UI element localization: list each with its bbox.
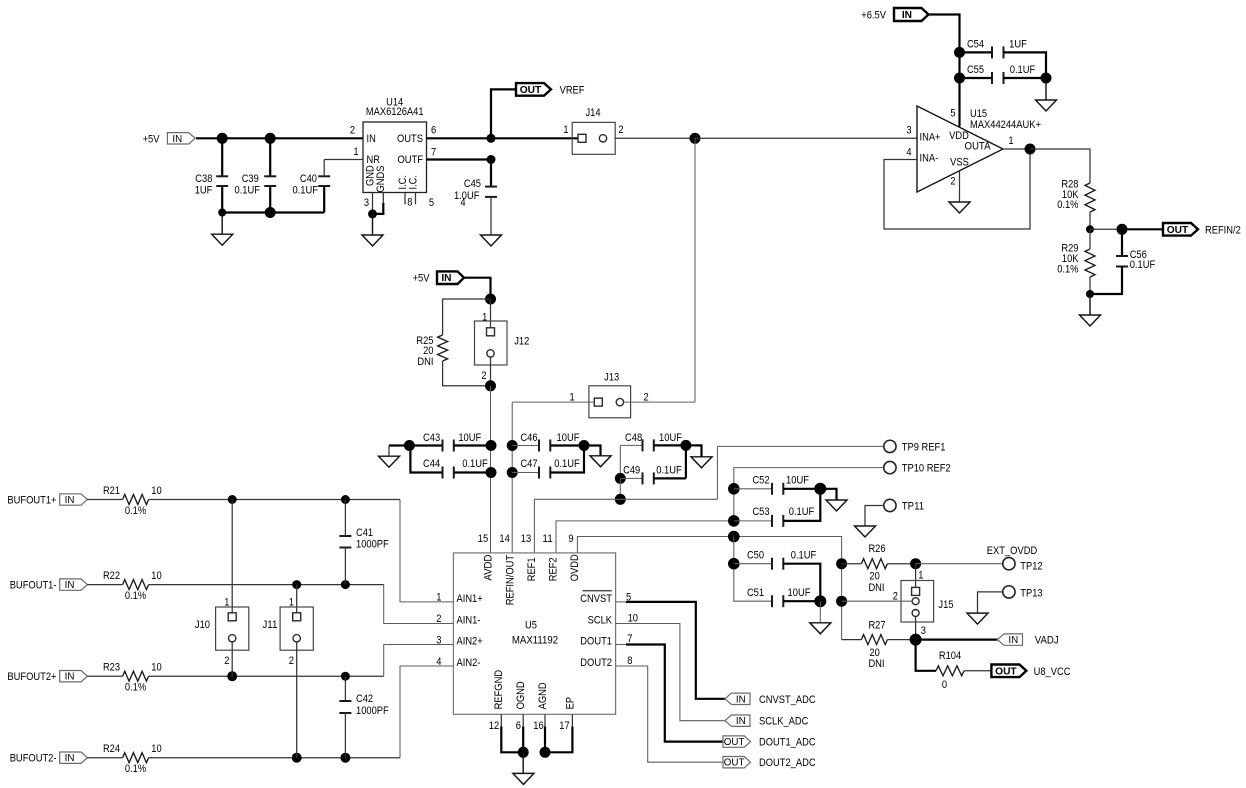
- svg-text:5: 5: [429, 197, 434, 209]
- port IN BUFOUT2+: [60, 671, 88, 682]
- svg-text:1: 1: [918, 570, 923, 582]
- wire OUTS pin 6 to VREF node: [427, 137, 579, 139]
- testpoint TP10: [884, 461, 896, 473]
- svg-text:DOUT2: DOUT2: [580, 657, 612, 669]
- svg-text:OUT: OUT: [724, 737, 745, 748]
- resistor R22 10 0.1%: [87, 584, 122, 586]
- node C53 left: [728, 515, 740, 527]
- svg-text:0.1%: 0.1%: [125, 590, 146, 602]
- svg-text:BUFOUT2+: BUFOUT2+: [7, 671, 56, 683]
- svg-text:IN: IN: [172, 134, 182, 145]
- svg-text:CNVST_ADC: CNVST_ADC: [759, 694, 816, 706]
- svg-text:0.1UF: 0.1UF: [462, 458, 488, 470]
- capacitor C56 0.1UF: [1121, 229, 1123, 256]
- wire node to VADJ port: [916, 638, 998, 640]
- wire REF2 bus to C53: [556, 521, 734, 553]
- jumper J11: [296, 585, 298, 614]
- svg-text:C48: C48: [625, 432, 642, 444]
- wire C49 to REF1 bus: [619, 478, 621, 499]
- svg-text:0.1%: 0.1%: [1057, 199, 1078, 211]
- wire J15 pin 2 to OVDD rail: [842, 600, 913, 602]
- IC U5 MAX11192 body: [453, 553, 615, 714]
- svg-text:C41: C41: [356, 527, 373, 539]
- wire +5V to J12 node: [464, 278, 491, 299]
- svg-text:R24: R24: [103, 743, 120, 755]
- wire BUFOUT1- to AIN1-: [149, 584, 384, 586]
- capacitor C44 0.1UF: [410, 446, 442, 473]
- svg-text:INA-: INA-: [920, 153, 939, 165]
- ground R29/C56: [1089, 294, 1091, 315]
- capacitor C42 1000PF: [344, 676, 346, 701]
- svg-text:I.C.: I.C.: [407, 175, 419, 190]
- node +5V/C38 junction: [217, 133, 228, 144]
- capacitor C46 10UF: [512, 445, 539, 447]
- svg-text:10UF: 10UF: [659, 432, 682, 444]
- svg-text:2: 2: [289, 655, 294, 667]
- capacitor C45 1.0UF: [490, 160, 492, 187]
- svg-text:R26: R26: [868, 543, 885, 555]
- svg-text:VADJ: VADJ: [1035, 635, 1059, 647]
- svg-text:EP: EP: [564, 697, 576, 710]
- capacitor C39 0.1UF: [269, 138, 271, 176]
- resistor R27 20 DNI: [842, 639, 862, 641]
- svg-text:4: 4: [906, 147, 911, 159]
- svg-text:J11: J11: [262, 619, 277, 631]
- svg-text:2: 2: [618, 124, 623, 136]
- node OVDD/J15 pin 2: [836, 596, 847, 607]
- wire REFIN/OUT chain down to U5: [511, 402, 513, 553]
- svg-text:1UF: 1UF: [1009, 38, 1027, 50]
- svg-text:TP10 REF2: TP10 REF2: [902, 463, 951, 475]
- svg-text:13: 13: [521, 533, 531, 545]
- svg-text:0.1%: 0.1%: [1057, 263, 1078, 275]
- node BUFOUT2+/C42: [341, 672, 350, 681]
- port IN VADJ: [997, 634, 1022, 645]
- svg-text:AGND: AGND: [537, 682, 549, 709]
- wire J14 pin 2 to node: [615, 137, 696, 139]
- svg-text:OUT: OUT: [724, 758, 745, 769]
- ground C46/C47: [584, 446, 601, 456]
- capacitor C49 0.1UF: [615, 473, 626, 484]
- svg-text:C50: C50: [747, 550, 764, 562]
- resistor R29 10K: [1089, 229, 1091, 249]
- svg-text:20: 20: [869, 647, 879, 659]
- svg-text:0.1%: 0.1%: [125, 505, 146, 517]
- port IN +5V (U14 supply): [167, 133, 195, 144]
- svg-text:1: 1: [482, 311, 487, 323]
- resistor R26 20 DNI: [842, 563, 862, 565]
- wire J12 pin 2 down: [490, 357, 492, 386]
- wire +5V rail to U14 pin 2: [196, 137, 363, 139]
- svg-text:1: 1: [224, 596, 229, 608]
- wire BUFOUT2+ to AIN2+: [149, 675, 384, 677]
- svg-text:3: 3: [906, 125, 911, 137]
- svg-text:1: 1: [563, 124, 568, 136]
- svg-text:1: 1: [353, 146, 358, 158]
- wire C52/C53 rail to TP10: [734, 468, 883, 521]
- wire node down to J13 pin 2: [694, 138, 696, 402]
- capacitor C54 1UF: [960, 51, 993, 53]
- svg-text:J15: J15: [938, 599, 953, 611]
- wire J15 pin 3 down: [915, 617, 917, 640]
- svg-text:C55: C55: [967, 64, 984, 76]
- svg-text:IN: IN: [902, 10, 912, 21]
- node VREF junction: [487, 134, 496, 143]
- svg-text:C53: C53: [752, 506, 769, 518]
- svg-text:BUFOUT1+: BUFOUT1+: [7, 495, 56, 507]
- ground C48/C49: [686, 445, 702, 456]
- svg-text:C44: C44: [423, 458, 440, 470]
- svg-text:0.1UF: 0.1UF: [1130, 259, 1156, 271]
- svg-text:J13: J13: [604, 372, 619, 384]
- port OUT VREF: [516, 83, 551, 96]
- wire OUTF pin 7: [427, 158, 492, 160]
- svg-text:C40: C40: [300, 173, 317, 185]
- svg-text:INA+: INA+: [920, 131, 941, 143]
- wire AGND stub: [544, 714, 546, 726]
- ground U14: [372, 214, 374, 235]
- svg-text:+5V: +5V: [413, 273, 430, 285]
- node J12 bottom: [485, 380, 496, 391]
- wire C50/C51 left rail: [734, 537, 772, 602]
- svg-text:0.1UF: 0.1UF: [293, 185, 319, 197]
- svg-text:C47: C47: [520, 458, 537, 470]
- wire REFGND stub: [500, 714, 502, 726]
- svg-text:2: 2: [481, 370, 486, 382]
- svg-text:REF1: REF1: [526, 557, 538, 581]
- resistor R23 10 0.1%: [87, 675, 122, 677]
- svg-text:IN: IN: [1008, 635, 1018, 646]
- wire ground rail C38-C40: [222, 211, 324, 213]
- resistor R24 10 0.1%: [87, 757, 122, 759]
- svg-text:7: 7: [431, 147, 436, 159]
- svg-text:J12: J12: [514, 336, 529, 348]
- node R29/C56 ground junction: [1086, 290, 1094, 298]
- svg-text:10UF: 10UF: [458, 432, 481, 444]
- svg-text:20: 20: [423, 345, 433, 357]
- node REFIN/2 junction: [1117, 224, 1128, 235]
- svg-text:0.1UF: 0.1UF: [554, 458, 580, 470]
- node C54/C55 ground junction: [1041, 73, 1052, 84]
- svg-text:SCLK_ADC: SCLK_ADC: [759, 716, 808, 728]
- wire DOUT2 to port: [616, 666, 723, 762]
- ground U15 VSS: [949, 202, 970, 213]
- node OVDD/R26: [836, 558, 847, 569]
- wire TP13 to ground: [978, 592, 1003, 613]
- ground U5: [522, 752, 524, 773]
- svg-text:0.1%: 0.1%: [125, 763, 146, 775]
- node C48/C49 ground junction: [680, 440, 691, 451]
- svg-text:R23: R23: [103, 662, 120, 674]
- node R26/J15 pin 1: [910, 558, 921, 569]
- svg-text:0.1%: 0.1%: [125, 682, 146, 694]
- svg-text:MAX44244AUK+: MAX44244AUK+: [970, 119, 1041, 131]
- svg-text:1.0UF: 1.0UF: [454, 190, 480, 202]
- node C39 ground rail: [265, 207, 276, 218]
- capacitor C40 0.1UF: [318, 175, 330, 177]
- svg-text:2: 2: [893, 590, 898, 602]
- wire VREF to OUT port: [491, 89, 516, 138]
- node OVDD/C50 rail: [728, 531, 740, 543]
- svg-text:C46: C46: [520, 432, 537, 444]
- svg-text:OUTS: OUTS: [397, 133, 423, 145]
- jumper J10: [231, 500, 233, 614]
- wire U14 GNDS pin 4 stub: [382, 193, 384, 204]
- wire AVDD chain down to U5: [490, 386, 492, 553]
- ground C38 rail: [221, 213, 223, 235]
- node BUFOUT2-/C42: [340, 753, 350, 763]
- svg-text:OUT: OUT: [1167, 225, 1189, 236]
- svg-text:C38: C38: [195, 173, 212, 185]
- wire OUTA to node: [1003, 148, 1030, 150]
- wire R26 node to TP12: [916, 563, 1003, 565]
- capacitor C43 10UF: [409, 444, 442, 446]
- svg-text:10UF: 10UF: [788, 587, 811, 599]
- svg-text:R21: R21: [103, 485, 120, 497]
- svg-text:AVDD: AVDD: [483, 555, 495, 581]
- svg-text:0.1UF: 0.1UF: [656, 464, 682, 476]
- node R28/R29 divider: [1086, 225, 1094, 233]
- svg-text:TP12: TP12: [1020, 561, 1042, 573]
- svg-text:10UF: 10UF: [786, 474, 809, 486]
- svg-text:C43: C43: [423, 432, 440, 444]
- svg-text:17: 17: [559, 720, 569, 732]
- node +5V/C39 junction: [265, 133, 276, 144]
- svg-text:1: 1: [289, 596, 294, 608]
- node C43/AVDD: [486, 440, 497, 451]
- svg-text:VSS: VSS: [950, 156, 969, 168]
- node C49/REF1: [615, 494, 626, 505]
- node C47/REFIN: [507, 467, 518, 478]
- wire BUFOUT2- to AIN2-: [149, 757, 400, 759]
- node BUFOUT2+/J10 pin 2: [227, 671, 237, 681]
- svg-text:1000PF: 1000PF: [356, 705, 389, 717]
- svg-text:C39: C39: [242, 173, 259, 185]
- svg-text:MAX6126A41: MAX6126A41: [366, 106, 424, 118]
- svg-text:DOUT2_ADC: DOUT2_ADC: [759, 757, 816, 769]
- ground C43/C44: [379, 456, 400, 467]
- capacitor C53 0.1UF: [734, 520, 772, 522]
- port OUT REFIN/2: [1163, 223, 1198, 236]
- capacitor C51 10UF: [771, 595, 773, 607]
- wire TP11 to ground: [865, 506, 883, 527]
- svg-text:IN: IN: [736, 694, 746, 705]
- svg-text:TP9 REF1: TP9 REF1: [902, 441, 946, 453]
- wire node to J12 pin 1: [490, 299, 492, 328]
- svg-text:C45: C45: [464, 178, 481, 190]
- svg-text:IN: IN: [65, 580, 75, 591]
- wire BUFOUT1+ to AIN1+: [149, 499, 400, 501]
- svg-text:IN: IN: [441, 273, 451, 284]
- capacitor C52 10UF: [734, 488, 772, 490]
- node VREF distribution: [690, 133, 701, 144]
- svg-text:11: 11: [542, 533, 552, 545]
- wire +6.5V to VDD: [929, 15, 960, 127]
- node U14 ground: [368, 209, 377, 218]
- svg-text:10: 10: [151, 485, 161, 497]
- wire J13 pin 2 to VREF node riser: [624, 401, 695, 403]
- node OUTA output: [1025, 144, 1036, 155]
- port IN SCLK_ADC: [725, 715, 750, 726]
- wire divider to C56 node: [1090, 228, 1122, 230]
- svg-text:0.1UF: 0.1UF: [1010, 64, 1036, 76]
- svg-text:+5V: +5V: [143, 133, 160, 145]
- resistor R28 10K: [1085, 183, 1095, 212]
- port OUT DOUT1_ADC: [723, 736, 751, 747]
- svg-text:C42: C42: [356, 693, 373, 705]
- op-amp U15 MAX44244AUK+ body: [917, 106, 1003, 192]
- svg-text:2: 2: [350, 125, 355, 137]
- svg-text:MAX11192: MAX11192: [512, 635, 558, 647]
- svg-text:6: 6: [516, 720, 521, 732]
- svg-text:0.1UF: 0.1UF: [235, 185, 261, 197]
- port IN BUFOUT2-: [60, 752, 88, 763]
- ground TP11: [855, 526, 876, 537]
- node AGND ground bus: [540, 747, 551, 758]
- resistor R25 20 DNI: [443, 299, 491, 335]
- node C43 ground-side: [404, 440, 415, 451]
- svg-text:OVDD: OVDD: [569, 554, 581, 581]
- capacitor C48 10UF: [620, 444, 642, 446]
- wire C48 left riser: [619, 445, 621, 478]
- capacitor C41 1000PF: [344, 500, 346, 537]
- port IN BUFOUT1+: [60, 494, 88, 505]
- jumper J12: [475, 321, 508, 365]
- node C55 junction: [954, 73, 965, 84]
- node BUFOUT2-/J11 pin 2: [292, 753, 302, 763]
- jumper J14: [572, 122, 615, 154]
- svg-text:9: 9: [568, 533, 573, 545]
- wire OGND stub: [522, 714, 524, 726]
- ground C54/C55: [1045, 78, 1047, 100]
- wire EP stub: [571, 714, 573, 726]
- wire U14 IC pin stubs: [404, 193, 406, 205]
- svg-text:OUTF: OUTF: [398, 154, 424, 166]
- wire U15 feedback INA- loop: [884, 149, 1030, 229]
- svg-text:C49: C49: [623, 464, 640, 476]
- svg-text:3: 3: [364, 197, 369, 209]
- svg-text:DOUT1_ADC: DOUT1_ADC: [759, 737, 816, 749]
- wire CNVST to port: [616, 601, 626, 603]
- svg-text:+6.5V: +6.5V: [861, 10, 886, 22]
- svg-text:8: 8: [407, 197, 412, 209]
- svg-text:1: 1: [1008, 135, 1013, 147]
- wire output to R28: [1030, 149, 1090, 183]
- svg-text:AIN2-: AIN2-: [457, 657, 481, 669]
- node C52 left: [728, 483, 740, 495]
- svg-text:REF2: REF2: [548, 557, 560, 581]
- resistor R104 0: [916, 640, 936, 671]
- svg-text:CNVST: CNVST: [580, 593, 612, 605]
- capacitor C47 0.1UF: [512, 472, 539, 474]
- svg-text:IN: IN: [736, 716, 746, 727]
- svg-text:GNDS: GNDS: [375, 166, 387, 193]
- node C50 left: [728, 558, 740, 570]
- svg-text:SCLK: SCLK: [588, 615, 613, 627]
- svg-text:U8_VCC: U8_VCC: [1034, 666, 1071, 678]
- node VADJ junction: [910, 634, 922, 646]
- svg-text:DNI: DNI: [868, 582, 884, 594]
- svg-text:R27: R27: [868, 620, 885, 632]
- svg-text:IN: IN: [367, 133, 376, 145]
- wire node to op-amp INA+: [695, 137, 917, 139]
- port IN BUFOUT1-: [60, 579, 88, 590]
- svg-text:R22: R22: [103, 570, 120, 582]
- node OUTF/C45 junction: [487, 155, 496, 164]
- svg-text:DNI: DNI: [417, 356, 433, 368]
- svg-text:2: 2: [224, 655, 229, 667]
- svg-text:AIN1-: AIN1-: [457, 615, 481, 627]
- svg-text:AIN2+: AIN2+: [457, 636, 483, 648]
- svg-text:10: 10: [151, 662, 161, 674]
- svg-text:OUT: OUT: [520, 85, 542, 96]
- wire C40 to U14 NR pin 1: [324, 159, 363, 161]
- svg-text:BUFOUT2-: BUFOUT2-: [10, 753, 57, 765]
- jumper J13: [589, 386, 631, 418]
- svg-text:7: 7: [627, 633, 632, 645]
- testpoint TP12: [1003, 558, 1015, 570]
- port OUT DOUT2_ADC: [723, 757, 751, 768]
- capacitor C50 0.1UF: [734, 563, 772, 565]
- svg-text:R104: R104: [939, 650, 961, 662]
- wire DOUT1 to port: [616, 644, 626, 646]
- port IN +5V (J12): [437, 271, 464, 284]
- svg-text:20: 20: [869, 571, 879, 583]
- svg-text:U5: U5: [525, 619, 537, 631]
- svg-text:DNI: DNI: [868, 658, 884, 670]
- svg-text:C51: C51: [747, 587, 764, 599]
- svg-text:16: 16: [533, 720, 543, 732]
- testpoint TP11: [884, 499, 896, 511]
- node BUFOUT1+/J10: [228, 495, 237, 504]
- svg-text:0: 0: [942, 679, 947, 691]
- capacitor C38 1UF: [221, 138, 223, 176]
- node J12 top: [485, 294, 496, 305]
- svg-text:OUT: OUT: [995, 666, 1017, 677]
- svg-text:OUTA: OUTA: [965, 140, 992, 152]
- svg-text:J14: J14: [585, 107, 600, 119]
- node OGND ground bus: [518, 747, 529, 758]
- svg-text:IN: IN: [65, 753, 75, 764]
- svg-text:0.1UF: 0.1UF: [789, 506, 815, 518]
- svg-text:TP13: TP13: [1020, 587, 1042, 599]
- jumper J15: [915, 564, 917, 588]
- node C38 ground rail: [218, 209, 226, 217]
- node C54 junction: [954, 47, 965, 58]
- svg-text:2: 2: [950, 176, 955, 188]
- svg-text:REFIN/OUT: REFIN/OUT: [504, 555, 516, 606]
- svg-text:10: 10: [151, 743, 161, 755]
- ground C50/C51: [819, 601, 821, 623]
- node C51 ground junction: [814, 595, 826, 607]
- wire J13 pin 1 to REFIN/OUT chain: [512, 401, 594, 403]
- svg-text:EXT_OVDD: EXT_OVDD: [987, 545, 1037, 557]
- svg-text:12: 12: [489, 720, 499, 732]
- svg-text:BUFOUT1-: BUFOUT1-: [10, 580, 57, 592]
- wire SCLK to port: [616, 624, 725, 721]
- svg-text:IN: IN: [65, 672, 75, 683]
- node BUFOUT1-/C41: [341, 580, 350, 589]
- port OUT U8_VCC: [991, 665, 1026, 678]
- svg-text:1000PF: 1000PF: [356, 539, 389, 551]
- wire to REFIN/2 port: [1122, 228, 1163, 230]
- node BUFOUT1+/C41: [341, 495, 350, 504]
- svg-text:14: 14: [499, 533, 509, 545]
- svg-text:REFGND: REFGND: [493, 670, 505, 710]
- ground TP13: [967, 613, 988, 624]
- resistor R21 10 0.1%: [87, 499, 122, 501]
- svg-text:0.1UF: 0.1UF: [791, 550, 817, 562]
